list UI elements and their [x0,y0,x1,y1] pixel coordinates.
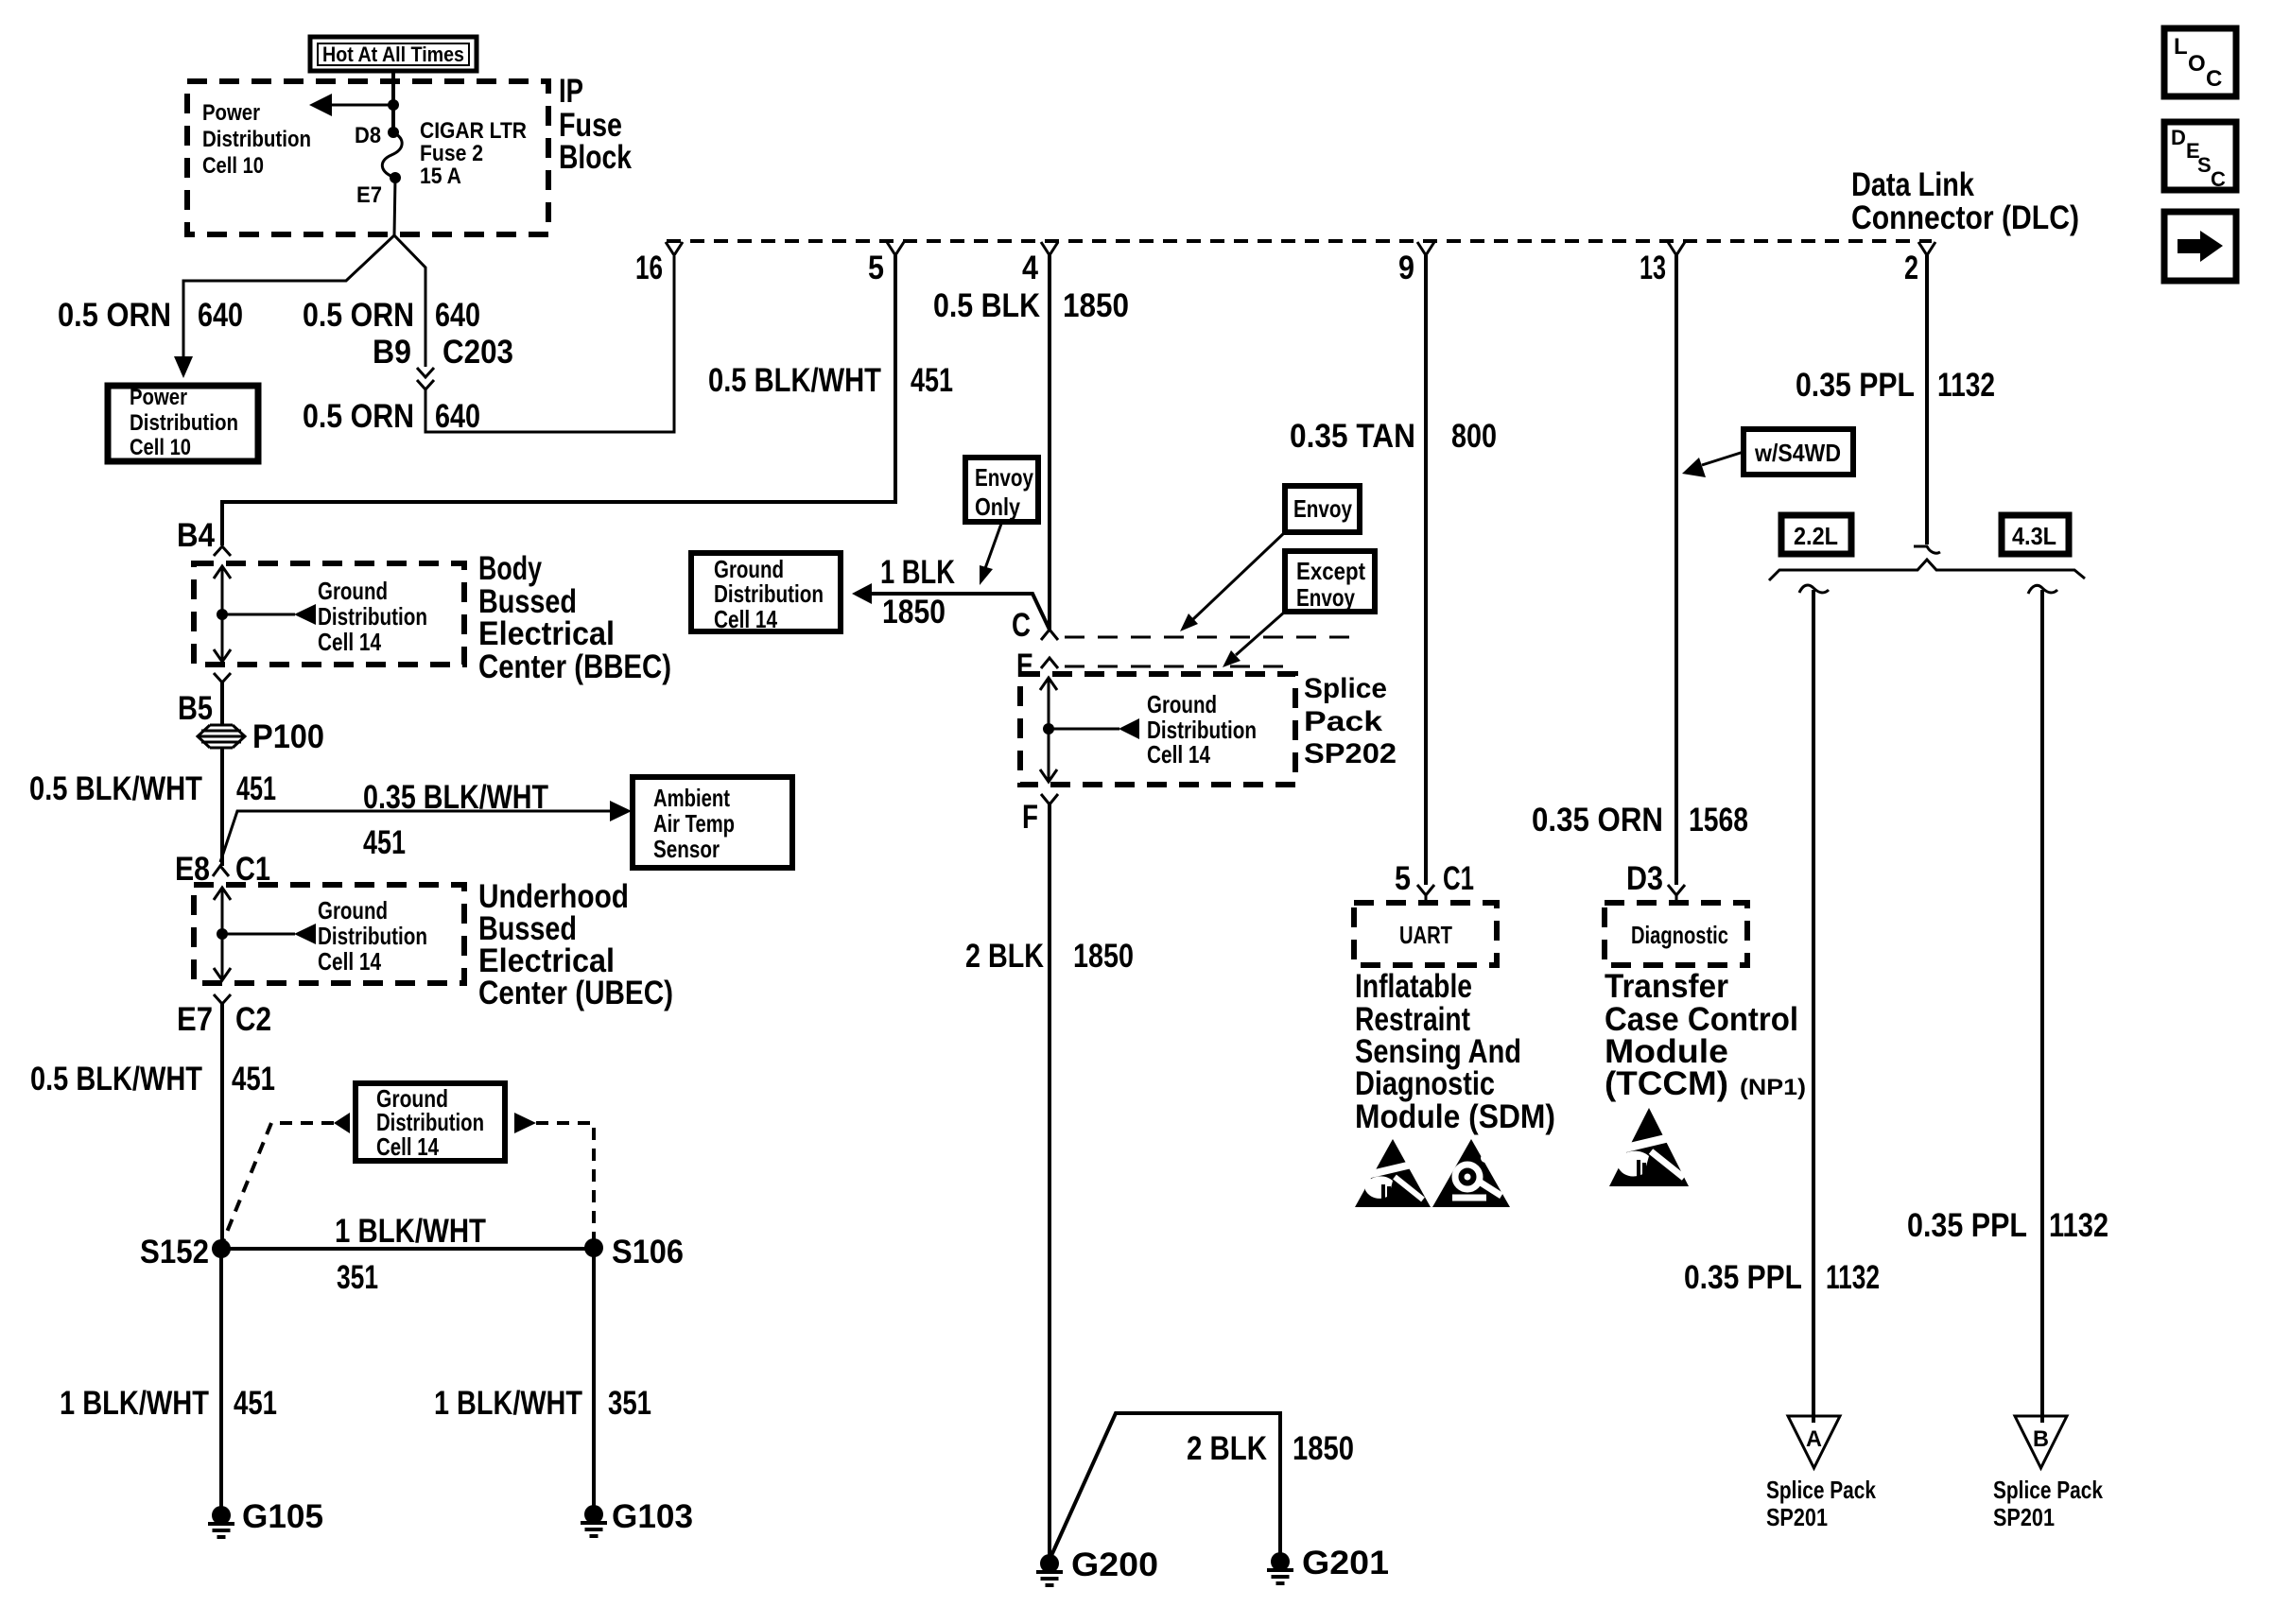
svg-text:G105: G105 [242,1498,323,1535]
wire: DLC pin 5 to connector B4 [222,255,895,545]
svg-text:Data Link: Data Link [1851,166,1974,203]
svg-text:E: E [1016,648,1033,684]
svg-text:0.5 ORN: 0.5 ORN [303,297,414,334]
wire: F down to G200 [1048,804,1051,1555]
2.2L label box [1781,515,1851,554]
svg-text:C: C [2211,167,2226,191]
svg-text:1132: 1132 [1937,367,1995,404]
svg-text:Sensor: Sensor [653,835,720,863]
svg-text:Distribution: Distribution [318,602,427,631]
svg-text:S: S [2197,153,2212,177]
svg-text:5: 5 [868,250,884,286]
svg-text:640: 640 [198,297,243,334]
svg-text:Distribution: Distribution [714,579,824,608]
svg-text:SP202: SP202 [1304,738,1397,769]
wire: 2.2L branch down to splice pack A [1812,590,1815,1423]
wire: S152 to S106 [221,1247,594,1251]
svg-text:(TCCM): (TCCM) [1605,1065,1728,1102]
svg-text:1568: 1568 [1689,802,1748,838]
Splice Pack SP201 label (B) [1993,1476,2103,1531]
svg-text:0.5 ORN: 0.5 ORN [58,297,171,334]
Except Envoy pointer arrow [1236,612,1285,655]
UBEC dashed box [194,885,464,983]
svg-text:0.35 TAN: 0.35 TAN [1290,418,1415,455]
Except Envoy label box [1285,551,1375,612]
DLC pin 13 chevron [1668,242,1685,255]
svg-text:0.35 ORN: 0.35 ORN [1532,802,1663,838]
Ground Distribution Cell 14 box (middle) [691,553,841,631]
svg-text:Envoy: Envoy [1293,494,1352,523]
Envoy label box [1285,486,1360,532]
wire: S106 down to G103 [592,1249,596,1506]
svg-text:Air Temp: Air Temp [653,809,735,838]
UBEC ground reference arrow [294,924,316,944]
svg-text:1850: 1850 [1073,938,1134,975]
wire: below C203 down, right to pin 16 riser [425,256,674,432]
DLC pin 9 chevron [1417,242,1434,255]
BBEC ground reference arrow [294,604,316,625]
svg-text:2.2L: 2.2L [1794,522,1838,550]
pin 2 wire end squiggle [1914,546,1940,553]
splice pack A triangle [1788,1416,1840,1468]
svg-text:SP201: SP201 [1766,1503,1828,1531]
svg-text:451: 451 [911,362,953,399]
svg-text:0.35 PPL: 0.35 PPL [1796,367,1915,404]
TCCM connector chevron [1668,885,1685,903]
legend forward-arrow box [2164,212,2236,281]
ESD warning triangle (SDM right) [1432,1139,1510,1207]
svg-text:Only: Only [975,492,1020,521]
svg-text:G201: G201 [1302,1545,1389,1581]
BBEC up arrow [214,566,231,579]
svg-text:Envoy: Envoy [975,463,1033,492]
wire: battery feed from Hot At All Times into fuse block [391,71,395,132]
ESD warning triangle (TCCM) [1609,1108,1689,1186]
UBEC ground reference wire [222,933,295,936]
wire: E7/C2 down to S152 [220,1004,224,1249]
svg-text:Inflatable: Inflatable [1355,968,1472,1005]
svg-text:1 BLK: 1 BLK [880,554,955,591]
svg-text:2: 2 [1904,250,1918,286]
wire: right branch down to connector C203 [394,235,425,367]
Envoy Only label box [965,458,1038,522]
svg-text:Cell 10: Cell 10 [130,435,191,460]
svg-text:C1: C1 [1443,860,1474,897]
svg-text:A: A [1806,1426,1822,1452]
connector E8 chevron [213,866,229,876]
4.3L branch top squiggle [2028,585,2057,594]
svg-text:C: C [1012,607,1031,644]
pin dot E7 [390,172,401,183]
svg-text:800: 800 [1451,418,1497,455]
wire: 4.3L branch down to splice pack B [2040,590,2044,1423]
svg-text:Cell 14: Cell 14 [318,947,381,976]
wire: B5 to P100 [220,682,224,724]
Body Bussed Electrical Center (BBEC) title [478,550,671,685]
svg-text:Electrical: Electrical [478,615,615,652]
wire: DLC pin 4 down to connector C [1048,255,1051,630]
svg-text:S106: S106 [612,1234,684,1270]
grommet P100 symbol [198,725,245,748]
svg-text:Distribution: Distribution [202,127,311,152]
svg-text:0.35 PPL: 0.35 PPL [1907,1207,2027,1244]
connector B5 chevron [214,673,231,682]
wire: branch from G200 to G201 [1050,1413,1280,1560]
svg-text:CIGAR LTR: CIGAR LTR [420,118,527,144]
svg-text:0.35 BLK/WHT: 0.35 BLK/WHT [363,779,548,816]
Ground Distribution Cell 14 text (lower left) [376,1084,484,1161]
Hot At All Times label box [310,37,477,71]
svg-text:Cell 14: Cell 14 [714,605,777,633]
Ground Distribution Cell 14 box (lower left) [356,1083,505,1161]
pin dot D8 [388,127,399,138]
svg-text:1 BLK/WHT: 1 BLK/WHT [60,1385,209,1422]
fuse F2 squiggle element [382,132,402,178]
DLC pin 4 chevron [1041,242,1058,255]
DLC pin 2 chevron [1918,242,1935,255]
svg-text:0.5 BLK: 0.5 BLK [933,287,1040,324]
arrow into Ambient Air Temp Sensor [610,801,632,821]
wire: 1 BLK from ground distribution to connector C [868,594,1050,630]
Underhood Bussed Electrical Center (UBEC) title [478,878,673,1011]
svg-text:1 BLK/WHT: 1 BLK/WHT [434,1385,582,1422]
svg-text:G103: G103 [612,1498,693,1535]
connector C203 double chevron [417,368,434,389]
svg-text:E7: E7 [356,182,382,208]
wire: branch to Power Distribution Cell 10 (arrow left) [329,104,393,107]
svg-text:Diagnostic: Diagnostic [1355,1065,1495,1102]
Envoy Only pointer arrow [984,524,1001,571]
splice S106 dot [584,1238,603,1257]
BBEC ground reference wire [222,613,295,616]
svg-text:Power: Power [202,100,260,126]
legend forward arrow [2178,231,2223,262]
svg-text:Cell 14: Cell 14 [376,1132,439,1161]
svg-text:1 BLK/WHT: 1 BLK/WHT [335,1213,486,1250]
wire: DLC pin 13 down to TCCM [1674,255,1678,885]
legend LOC letters [2174,34,2222,92]
legend DESC letters [2171,126,2226,191]
svg-text:E7: E7 [177,1001,213,1038]
svg-text:Except: Except [1296,557,1365,585]
ground G105 symbol [208,1506,234,1537]
wire: left branch to Power Distribution Cell 10 box [183,235,394,357]
wire: fuse output E7 down to split [394,178,395,235]
svg-text:UART: UART [1399,921,1452,949]
w/S4WD label box [1744,429,1853,475]
svg-text:Transfer: Transfer [1605,968,1728,1005]
SP202 up arrow [1040,678,1057,690]
svg-text:w/S4WD: w/S4WD [1754,439,1841,467]
connector B4 chevron [214,546,231,556]
svg-text:Cell 14: Cell 14 [1147,740,1210,769]
Envoy split dashed line [1065,636,1352,639]
svg-text:16: 16 [635,250,663,286]
ground reference arrow (middle box) [852,583,872,604]
svg-text:Ground: Ground [1147,690,1217,718]
svg-text:Power: Power [130,385,187,410]
svg-text:Center (BBEC): Center (BBEC) [478,648,671,685]
BBEC Ground Distribution Cell 14 text [318,577,427,656]
svg-text:351: 351 [337,1259,378,1296]
svg-text:Ambient: Ambient [653,784,730,812]
IP Fuse Block dashed box [187,81,548,234]
svg-text:S152: S152 [140,1234,209,1270]
legend DESC box [2164,122,2236,190]
svg-text:(NP1): (NP1) [1740,1075,1806,1100]
svg-text:Diagnostic: Diagnostic [1631,921,1728,949]
UBEC down arrow [214,968,231,980]
SP202 internal wire with arrows [1048,678,1050,781]
Power Distribution Cell 10 text (inside fuse block) [202,100,311,179]
svg-text:C2: C2 [235,1001,271,1038]
w/S4WD pointer arrow [1702,452,1744,465]
Power Distribution Cell 10 destination text [130,385,238,460]
connector C chevron [1041,630,1058,640]
svg-text:Center (UBEC): Center (UBEC) [478,975,673,1011]
svg-text:B4: B4 [177,517,215,554]
svg-text:1132: 1132 [2049,1207,2108,1244]
BBEC dashed box [194,563,464,665]
BBEC junction dot [217,609,228,620]
svg-text:Hot At All Times: Hot At All Times [322,43,464,66]
svg-text:2 BLK: 2 BLK [965,938,1044,975]
svg-text:Splice Pack: Splice Pack [1766,1476,1876,1504]
svg-text:Block: Block [559,139,632,176]
legend LOC box [2164,28,2236,96]
svg-text:Module (SDM): Module (SDM) [1355,1098,1555,1135]
svg-text:1132: 1132 [1826,1259,1880,1296]
svg-text:Splice Pack: Splice Pack [1993,1476,2103,1504]
svg-text:G200: G200 [1071,1546,1158,1583]
svg-text:L: L [2174,34,2188,60]
Splice Pack SP202 dashed box [1020,674,1295,785]
svg-text:D8: D8 [355,123,381,148]
svg-text:Ground: Ground [318,896,388,924]
Ambient Air Temp Sensor box [633,777,792,868]
svg-text:SP201: SP201 [1993,1503,2055,1531]
svg-text:451: 451 [363,824,406,861]
svg-text:Distribution: Distribution [318,922,427,950]
svg-text:640: 640 [435,297,480,334]
Splice Pack SP202 title [1304,673,1397,769]
svg-text:0.5 ORN: 0.5 ORN [303,398,414,435]
SP202 ground reference wire [1049,728,1119,731]
svg-text:2 BLK: 2 BLK [1187,1430,1267,1467]
UBEC up arrow [214,888,231,900]
svg-text:4: 4 [1022,250,1038,286]
svg-text:13: 13 [1640,250,1666,286]
svg-text:640: 640 [435,398,480,435]
svg-text:1850: 1850 [1063,287,1129,324]
svg-text:Fuse 2: Fuse 2 [420,141,483,166]
svg-text:1850: 1850 [882,594,946,631]
svg-text:Ground: Ground [318,577,388,605]
IP Fuse Block title [559,73,632,176]
UBEC Ground Distribution Cell 14 text [318,896,427,976]
svg-text:Distribution: Distribution [130,410,238,436]
svg-text:F: F [1022,799,1038,836]
DLC pin 16 chevron [666,242,683,255]
SP202 junction dot [1043,723,1054,734]
Envoy Only text [975,463,1033,521]
svg-text:B: B [2033,1426,2049,1452]
ground reference arrow (left, points left) [334,1113,350,1133]
svg-text:Cell 10: Cell 10 [202,153,264,179]
Data Link Connector (DLC) dashed boundary line [667,239,1932,243]
DLC pin 5 chevron [887,242,904,255]
svg-text:5: 5 [1395,860,1411,897]
Power Distribution Cell 10 destination box [108,386,258,461]
splice pack B triangle [2015,1416,2067,1468]
connector E7 chevron (below UBEC) [214,994,231,1004]
svg-text:D3: D3 [1626,860,1663,897]
svg-text:0.5 BLK/WHT: 0.5 BLK/WHT [708,362,881,399]
svg-text:C203: C203 [442,334,513,371]
svg-text:Cell 14: Cell 14 [318,628,381,656]
wire: DLC pin 9 down to SDM [1424,255,1428,885]
BBEC down arrow [214,649,231,662]
svg-text:C: C [2206,66,2222,92]
Transfer Case Control Module (TCCM) title [1605,968,1806,1102]
UBEC internal wire with arrows [221,889,224,979]
svg-text:0.35 PPL: 0.35 PPL [1684,1259,1802,1296]
connector E chevron [1041,658,1058,668]
splice S152 dot [212,1239,231,1258]
svg-text:451: 451 [236,770,276,807]
dashed ground reference wire to S152 [221,1123,334,1246]
wire: branch to Ambient Air Temp Sensor [220,811,615,862]
BBEC internal wire with arrows [221,567,224,661]
Envoy pointer arrow [1193,532,1285,619]
Ground Distribution Cell 14 text (middle) [714,555,824,633]
ground G201 symbol [1267,1552,1293,1583]
ESD warning triangle (SDM left) [1355,1139,1431,1207]
wire: S152 down to G105 [219,1249,223,1507]
UBEC junction dot [217,928,228,940]
svg-text:P100: P100 [252,718,324,755]
ground G103 symbol [581,1505,607,1536]
svg-text:Pack: Pack [1304,706,1382,737]
svg-text:B9: B9 [373,334,411,371]
svg-text:IP: IP [559,73,583,110]
svg-text:O: O [2188,51,2206,77]
SP202 ground reference arrow [1119,718,1139,739]
Diagnostic dashed box [1605,903,1747,965]
UART dashed box [1354,903,1497,965]
svg-text:D: D [2171,126,2186,149]
svg-text:451: 451 [234,1385,277,1422]
SDM connector chevron [1417,885,1434,903]
svg-text:B5: B5 [178,690,213,727]
svg-text:Envoy: Envoy [1296,583,1355,612]
dashed ground reference wire to S106 [536,1123,594,1240]
svg-text:351: 351 [608,1385,651,1422]
svg-text:0.5 BLK/WHT: 0.5 BLK/WHT [30,1061,202,1097]
2.2L branch top squiggle [1799,585,1829,593]
svg-text:Body: Body [478,550,542,587]
engine option brace [1769,560,2085,580]
svg-text:Splice: Splice [1304,673,1387,704]
svg-text:0.5 BLK/WHT: 0.5 BLK/WHT [29,770,202,807]
arrow head left at power distribution branch [309,94,332,116]
wire: P100 down to E8 [220,748,224,866]
4.3L label box [2002,515,2069,554]
Except Envoy split dashed line [1065,665,1288,668]
fuse value label CIGAR LTR Fuse 2 15 A [420,118,527,189]
svg-text:9: 9 [1398,250,1414,286]
ground G200 symbol [1036,1554,1063,1585]
svg-text:4.3L: 4.3L [2012,522,2056,550]
junction dot at battery feed [388,99,399,111]
svg-text:15 A: 15 A [420,164,461,189]
arrow head down into Power Distribution box [174,356,193,378]
Except Envoy text [1296,557,1365,612]
wire: DLC pin 2 down to engine split [1925,255,1929,544]
Splice Pack SP201 label (A) [1766,1476,1876,1531]
svg-text:Connector (DLC): Connector (DLC) [1851,199,2079,236]
ground reference arrow (right, points right) [514,1113,536,1133]
svg-text:1850: 1850 [1293,1430,1354,1467]
SP202 Ground Distribution Cell 14 text [1147,690,1257,769]
Ambient Air Temp Sensor text [653,784,735,863]
svg-text:451: 451 [232,1061,275,1097]
connector F chevron [1041,794,1058,804]
Data Link Connector (DLC) title [1851,166,2079,236]
SP202 down arrow [1040,769,1057,782]
Inflatable Restraint Sensing And Diagnostic Module (SDM) title [1355,968,1555,1135]
